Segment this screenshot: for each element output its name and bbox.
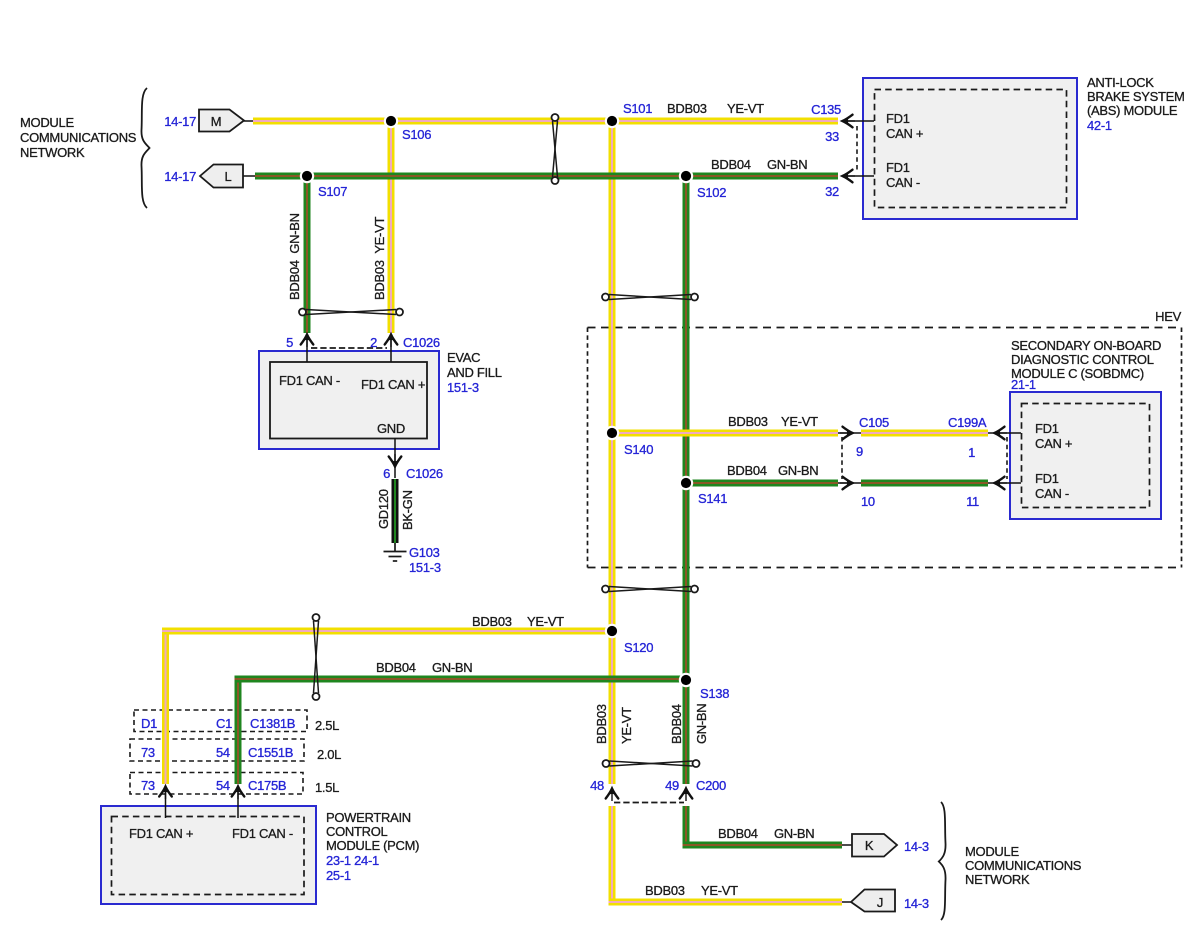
svg-text:AND FILL: AND FILL bbox=[447, 365, 502, 380]
label module communications network bottom-right bbox=[965, 844, 1082, 887]
svg-text:GND: GND bbox=[377, 421, 405, 436]
svg-text:S141: S141 bbox=[698, 491, 727, 506]
svg-text:C1026: C1026 bbox=[403, 335, 440, 350]
brace top-left module communications network bbox=[141, 88, 149, 208]
wire BDB04 GN-BN vertical to PCM pin 54 bbox=[235, 676, 242, 785]
PCM module box bbox=[101, 806, 316, 904]
pin 32 arrow into ABS bbox=[842, 170, 875, 183]
svg-text:BDB03: BDB03 bbox=[728, 414, 768, 429]
pin 9 arrow C105 bbox=[840, 427, 854, 440]
svg-text:1: 1 bbox=[968, 445, 975, 460]
svg-text:FD1 CAN -: FD1 CAN - bbox=[279, 373, 340, 388]
svg-text:BDB04: BDB04 bbox=[727, 463, 767, 478]
label FD1 CAN + in SOBDMC bbox=[1035, 421, 1072, 451]
connector flag M 14-17 bbox=[199, 110, 244, 132]
twisted pair T2 horizontal (S107/S106 pair) bbox=[299, 309, 403, 316]
svg-text:BDB04: BDB04 bbox=[376, 660, 416, 675]
svg-text:YE-VT: YE-VT bbox=[619, 707, 634, 744]
svg-text:BDB04: BDB04 bbox=[711, 157, 751, 172]
svg-text:J: J bbox=[877, 895, 883, 910]
label FD1 CAN + in ABS bbox=[886, 111, 923, 141]
svg-text:G103: G103 bbox=[409, 545, 440, 560]
wire BDB03 YE-VT vertical to PCM pin 73 bbox=[162, 629, 169, 785]
wire BDB03 YE-VT horizontal PCM branch to S120 bbox=[162, 628, 612, 635]
pin 73 arrow into PCM bbox=[159, 786, 172, 819]
svg-text:SECONDARY ON-BOARD: SECONDARY ON-BOARD bbox=[1011, 338, 1161, 353]
wire BDB04 GN-BN vertical S107 to C1026 pin 5 bbox=[304, 176, 311, 333]
svg-text:FD1 CAN +: FD1 CAN + bbox=[129, 826, 193, 841]
label ABS module name bbox=[1087, 75, 1185, 133]
connector C135 dashed line bbox=[856, 126, 858, 172]
wire BDB03 YE-VT horizontal S140 to C105 pin 9 bbox=[609, 430, 839, 437]
splice S140 bbox=[605, 426, 619, 440]
svg-text:54: 54 bbox=[216, 778, 230, 793]
svg-text:BDB03 YE-VT: BDB03 YE-VT bbox=[372, 217, 387, 300]
svg-text:54: 54 bbox=[216, 745, 230, 760]
wire BDB04 GN-BN horizontal C105 pin 10 to C199A pin 11 bbox=[838, 480, 1021, 487]
wire BDB03 YE-VT vertical S106 to C1026 pin 2 bbox=[388, 121, 395, 333]
svg-text:9: 9 bbox=[856, 444, 863, 459]
svg-text:BDB04: BDB04 bbox=[669, 704, 684, 744]
svg-text:CAN -: CAN - bbox=[1035, 486, 1069, 501]
label module communications network top-left bbox=[20, 115, 137, 160]
svg-text:BDB04: BDB04 bbox=[718, 826, 758, 841]
pin 48 arrow C200 bbox=[606, 788, 619, 802]
connector flag J 14-3 bbox=[851, 890, 895, 912]
svg-text:YE-VT: YE-VT bbox=[727, 101, 764, 116]
svg-text:42-1: 42-1 bbox=[1087, 118, 1112, 133]
svg-text:FD1 CAN -: FD1 CAN - bbox=[232, 826, 293, 841]
splice S141 bbox=[679, 476, 693, 490]
wire BDB03 YE-VT horizontal C105 pin 9 to C199A pin 1 bbox=[838, 430, 1021, 437]
svg-text:CONTROL: CONTROL bbox=[326, 824, 388, 839]
svg-text:GN-BN: GN-BN bbox=[432, 660, 472, 675]
label SOBDMC module name bbox=[1011, 338, 1161, 392]
splice S101 bbox=[605, 114, 619, 128]
svg-text:C1551B: C1551B bbox=[248, 745, 293, 760]
svg-text:S106: S106 bbox=[402, 127, 431, 142]
twisted pair T6 horizontal (above C200) bbox=[603, 760, 700, 767]
svg-text:C135: C135 bbox=[811, 102, 841, 117]
wire BDB04 GN-BN horizontal PCM branch to S138 bbox=[235, 676, 687, 683]
svg-text:GN-BN: GN-BN bbox=[778, 463, 818, 478]
svg-text:BRAKE SYSTEM: BRAKE SYSTEM bbox=[1087, 89, 1185, 104]
svg-text:BDB04 GN-BN: BDB04 GN-BN bbox=[287, 213, 302, 300]
label EVAC AND FILL name bbox=[447, 350, 502, 395]
pin 54 arrow into PCM bbox=[232, 786, 245, 819]
svg-text:BDB03: BDB03 bbox=[594, 704, 609, 744]
connector C1026 dashed line bbox=[311, 347, 387, 349]
svg-text:14-3: 14-3 bbox=[904, 839, 929, 854]
svg-text:C199A: C199A bbox=[948, 415, 987, 430]
wire BDB04 GN-BN vertical below C200 to K bbox=[683, 806, 690, 849]
wire BDB03 YE-VT vertical below C200 to J bbox=[609, 806, 616, 906]
label FD1 CAN - in SOBDMC bbox=[1035, 471, 1069, 501]
svg-text:2.5L: 2.5L bbox=[315, 718, 339, 733]
twisted pair T5 vertical (PCM branch) bbox=[313, 614, 320, 700]
svg-text:COMMUNICATIONS: COMMUNICATIONS bbox=[965, 858, 1082, 873]
svg-text:C105: C105 bbox=[859, 415, 889, 430]
svg-text:48: 48 bbox=[590, 778, 604, 793]
svg-text:C175B: C175B bbox=[248, 778, 286, 793]
svg-text:YE-VT: YE-VT bbox=[527, 614, 564, 629]
wire GD120 BK-GN bbox=[392, 479, 399, 543]
svg-text:GN-BN: GN-BN bbox=[767, 157, 807, 172]
svg-text:GN-BN: GN-BN bbox=[694, 704, 709, 744]
svg-text:MODULE: MODULE bbox=[20, 115, 74, 130]
svg-text:K: K bbox=[865, 838, 874, 853]
svg-text:GN-BN: GN-BN bbox=[774, 826, 814, 841]
wire BDB03 YE-VT vertical bus S101-S140-S120-C200 pin 48 bbox=[609, 121, 616, 784]
svg-text:L: L bbox=[225, 169, 232, 184]
svg-text:2.0L: 2.0L bbox=[317, 747, 341, 762]
svg-text:BDB03: BDB03 bbox=[472, 614, 512, 629]
label BDB04 GN-BN on K wire bbox=[718, 826, 814, 841]
pin 11 arrow C199A bbox=[994, 477, 1008, 490]
connector C1381B box 2.5L bbox=[134, 710, 339, 733]
pin 49 arrow C200 bbox=[680, 788, 693, 802]
svg-text:C1: C1 bbox=[216, 716, 232, 731]
svg-text:FD1: FD1 bbox=[886, 160, 910, 175]
svg-text:(ABS) MODULE: (ABS) MODULE bbox=[1087, 103, 1178, 118]
svg-text:10: 10 bbox=[861, 494, 875, 509]
svg-text:NETWORK: NETWORK bbox=[20, 145, 85, 160]
svg-text:C200: C200 bbox=[696, 778, 726, 793]
svg-text:S107: S107 bbox=[318, 184, 347, 199]
svg-text:FD1: FD1 bbox=[886, 111, 910, 126]
connector C1551B box 2.0L bbox=[130, 739, 341, 762]
svg-text:23-1 24-1: 23-1 24-1 bbox=[326, 853, 379, 868]
twisted pair T4 horizontal (center bus lower) bbox=[602, 586, 698, 593]
svg-text:BDB03: BDB03 bbox=[645, 883, 685, 898]
svg-text:COMMUNICATIONS: COMMUNICATIONS bbox=[20, 130, 137, 145]
label G103 151-3 bbox=[409, 545, 441, 575]
svg-text:S101: S101 bbox=[623, 101, 652, 116]
svg-text:S102: S102 bbox=[697, 185, 726, 200]
svg-text:6: 6 bbox=[383, 466, 390, 481]
connector C105 dashed line bbox=[841, 437, 843, 479]
svg-text:M: M bbox=[211, 114, 222, 129]
svg-text:POWERTRAIN: POWERTRAIN bbox=[326, 810, 411, 825]
svg-text:2: 2 bbox=[370, 335, 377, 350]
svg-text:21-1: 21-1 bbox=[1011, 377, 1036, 392]
svg-text:BK-GN: BK-GN bbox=[400, 490, 415, 530]
splice S106 bbox=[384, 114, 398, 128]
svg-text:C1026: C1026 bbox=[406, 466, 443, 481]
twisted pair T1 vertical (top bus) bbox=[552, 114, 559, 184]
wire BDB04 GN-BN horizontal S141 to C105 pin 10 bbox=[683, 480, 839, 487]
svg-text:MODULE (PCM): MODULE (PCM) bbox=[326, 838, 419, 853]
svg-text:DIAGNOSTIC CONTROL: DIAGNOSTIC CONTROL bbox=[1011, 352, 1154, 367]
wire BDB04 GN-BN vertical bus S102-S141-S138-C200 pin 49 bbox=[683, 176, 690, 784]
svg-text:NETWORK: NETWORK bbox=[965, 872, 1030, 887]
svg-text:FD1: FD1 bbox=[1035, 471, 1059, 486]
wire BDB04 GN-BN horizontal L to ABS pin 32 bbox=[243, 173, 838, 180]
EVAC AND FILL module box bbox=[259, 351, 439, 449]
label BDB03 YE-VT above PCM yellow branch bbox=[472, 614, 564, 629]
label PCM module name bbox=[326, 810, 419, 883]
splice S102 bbox=[679, 169, 693, 183]
svg-text:14-3: 14-3 bbox=[904, 896, 929, 911]
svg-text:C1381B: C1381B bbox=[250, 716, 295, 731]
label FD1 CAN - in ABS bbox=[886, 160, 920, 190]
connector flag L 14-17 bbox=[200, 165, 243, 188]
svg-text:CAN -: CAN - bbox=[886, 175, 920, 190]
svg-text:ANTI-LOCK: ANTI-LOCK bbox=[1087, 75, 1154, 90]
pin 10 arrow C105 bbox=[840, 477, 854, 490]
splice S107 bbox=[300, 169, 314, 183]
svg-text:CAN +: CAN + bbox=[886, 126, 923, 141]
svg-text:FD1: FD1 bbox=[1035, 421, 1059, 436]
svg-text:1.5L: 1.5L bbox=[315, 780, 339, 795]
svg-text:CAN +: CAN + bbox=[1035, 436, 1072, 451]
pin 6 arrow C1026 GND bbox=[389, 438, 402, 478]
svg-text:11: 11 bbox=[966, 494, 979, 509]
HEV dashed box bbox=[588, 328, 1182, 568]
svg-text:73: 73 bbox=[141, 745, 155, 760]
wire BDB03 YE-VT horizontal M to ABS pin 33 bbox=[244, 118, 838, 125]
svg-text:151-3: 151-3 bbox=[447, 380, 479, 395]
brace bottom-right module communications network bbox=[939, 802, 946, 920]
svg-text:14-17: 14-17 bbox=[164, 114, 196, 129]
svg-text:33: 33 bbox=[825, 129, 839, 144]
label BDB04 GN-BN above PCM green branch bbox=[376, 660, 472, 675]
svg-text:14-17: 14-17 bbox=[164, 169, 196, 184]
pin 1 arrow C199A bbox=[994, 427, 1008, 440]
svg-text:S120: S120 bbox=[624, 640, 653, 655]
SOBDMC module box bbox=[1010, 392, 1161, 519]
connector flag K 14-3 bbox=[852, 834, 897, 857]
svg-text:5: 5 bbox=[286, 335, 293, 350]
wire BDB03 YE-VT horizontal C200 to J bbox=[609, 899, 853, 906]
svg-text:49: 49 bbox=[665, 778, 679, 793]
svg-text:32: 32 bbox=[825, 184, 839, 199]
svg-text:YE-VT: YE-VT bbox=[701, 883, 738, 898]
svg-text:25-1: 25-1 bbox=[326, 868, 351, 883]
svg-text:HEV: HEV bbox=[1155, 309, 1181, 324]
splice S120 bbox=[605, 624, 619, 638]
pin 5 arrow C1026 bbox=[301, 334, 314, 363]
twisted pair T3 horizontal (center bus upper) bbox=[602, 294, 698, 301]
svg-text:151-3: 151-3 bbox=[409, 560, 441, 575]
svg-text:GD120: GD120 bbox=[376, 489, 391, 529]
wire BDB04 GN-BN horizontal C200 to K bbox=[683, 842, 854, 849]
svg-text:BDB03: BDB03 bbox=[667, 101, 707, 116]
pin 33 arrow into ABS bbox=[842, 115, 875, 128]
connector C199A dashed line bbox=[1006, 437, 1008, 479]
ABS module box bbox=[863, 78, 1077, 219]
svg-text:FD1 CAN +: FD1 CAN + bbox=[361, 377, 425, 392]
svg-text:YE-VT: YE-VT bbox=[781, 414, 818, 429]
svg-text:73: 73 bbox=[141, 778, 155, 793]
svg-text:S140: S140 bbox=[624, 442, 653, 457]
label BDB03 YE-VT on J wire bbox=[645, 883, 738, 898]
connector C175B box 1.5L bbox=[130, 773, 339, 796]
ground G103 symbol bbox=[384, 543, 407, 561]
svg-text:S138: S138 bbox=[700, 686, 729, 701]
svg-text:MODULE: MODULE bbox=[965, 844, 1019, 859]
connector C200 dashed line bbox=[614, 802, 684, 804]
pin 2 arrow C1026 bbox=[385, 334, 398, 363]
svg-text:D1: D1 bbox=[141, 716, 157, 731]
splice S138 bbox=[679, 673, 693, 687]
svg-text:EVAC: EVAC bbox=[447, 350, 480, 365]
